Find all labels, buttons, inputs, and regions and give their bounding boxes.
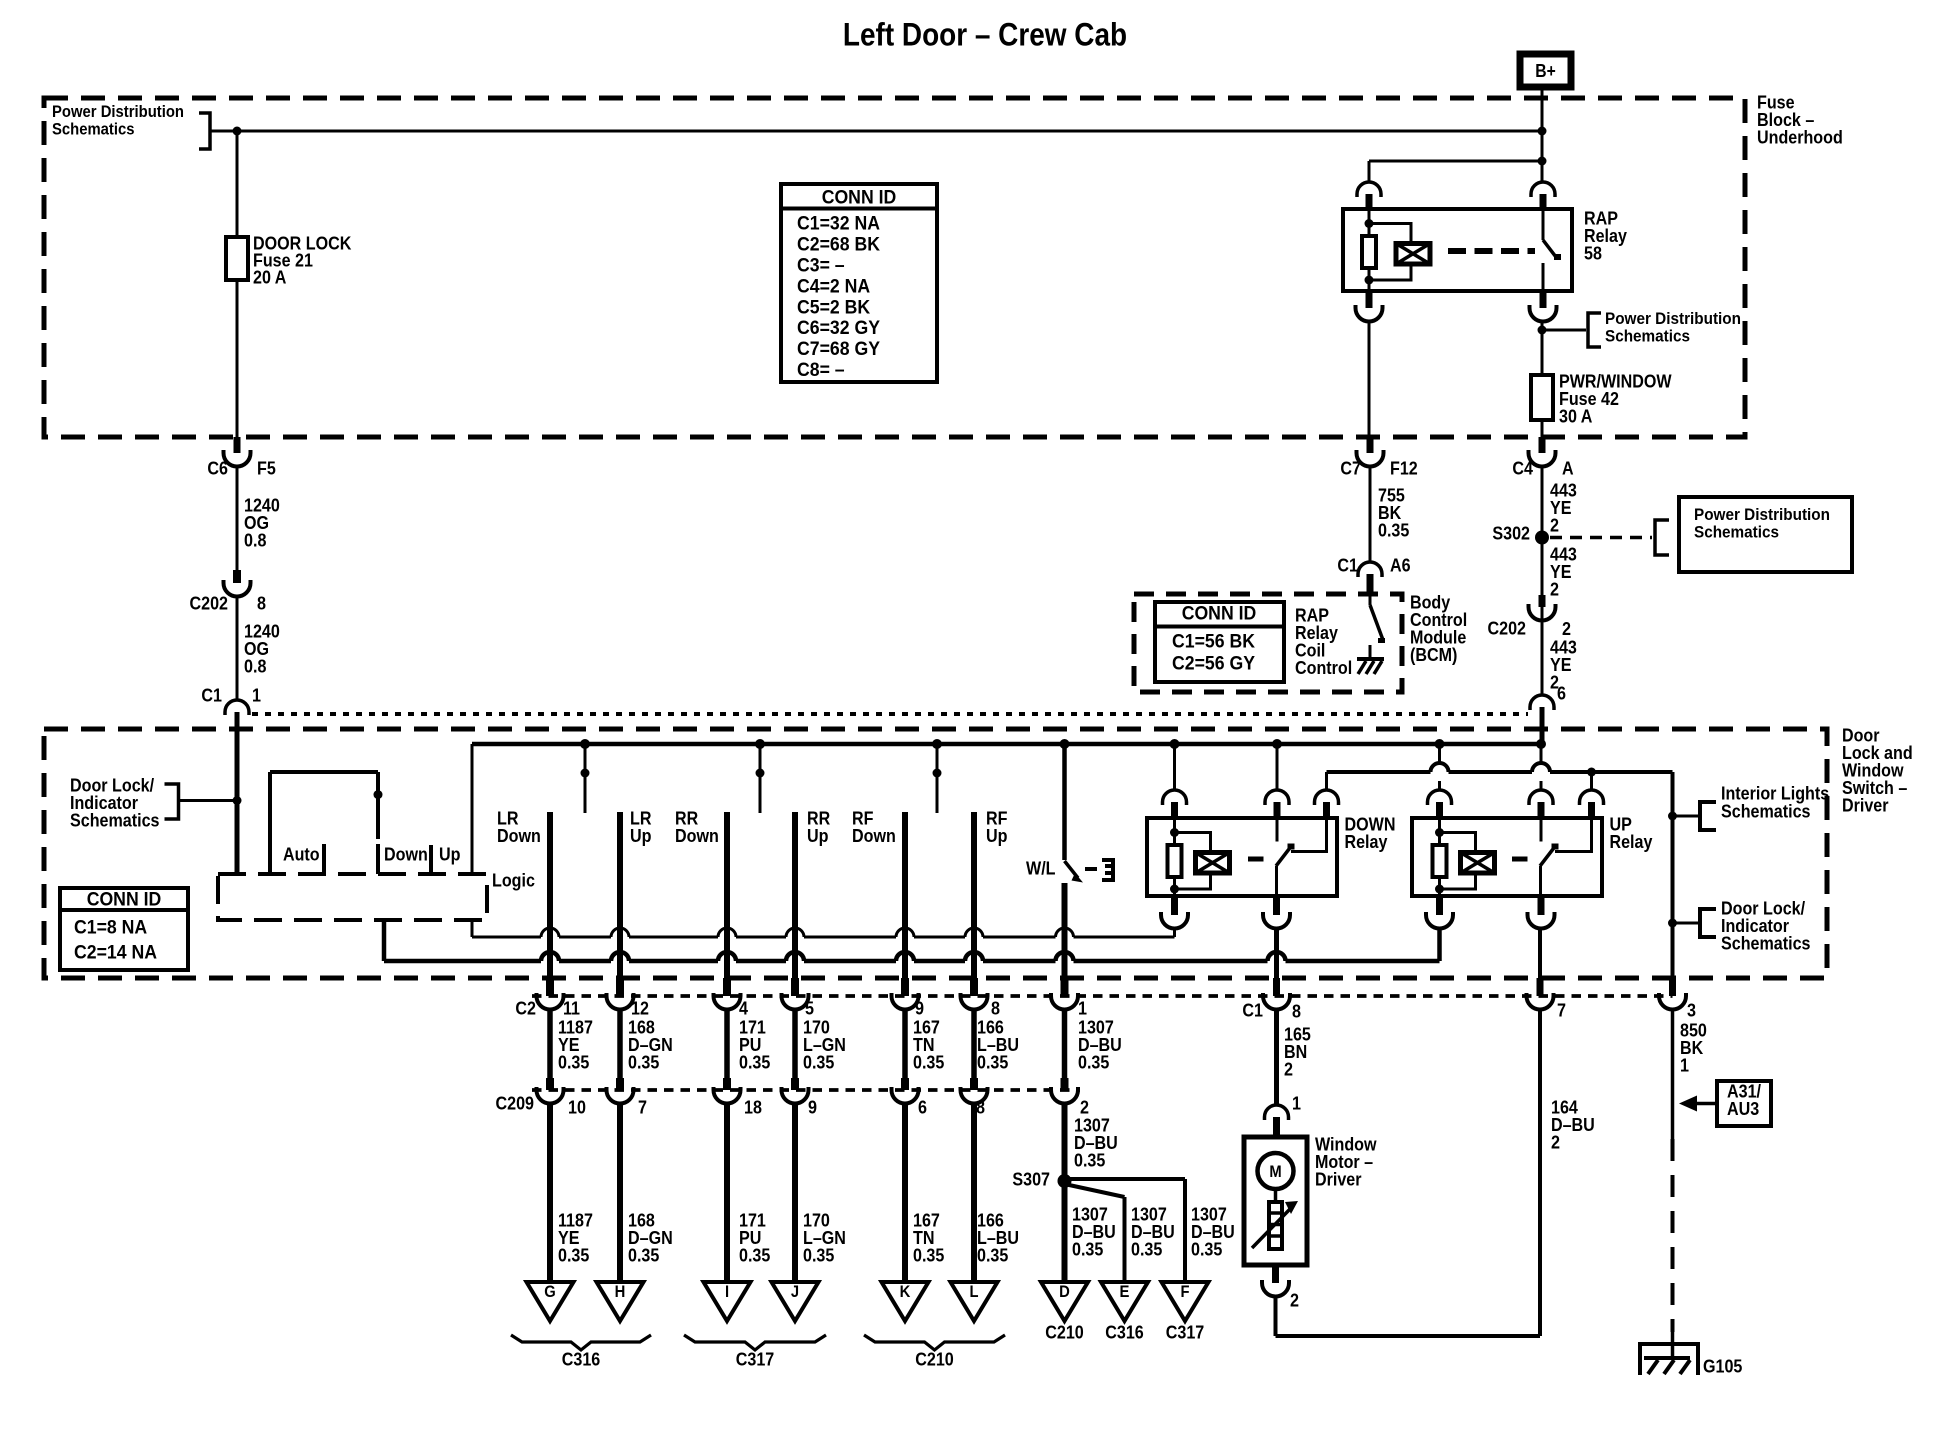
svg-text:0.35: 0.35 — [558, 1244, 589, 1265]
svg-text:0.35: 0.35 — [739, 1051, 770, 1072]
svg-text:Driver: Driver — [1842, 794, 1889, 815]
svg-text:B+: B+ — [1535, 61, 1556, 81]
svg-text:C2=14 NA: C2=14 NA — [74, 943, 157, 964]
svg-text:C7=68 GY: C7=68 GY — [797, 339, 880, 360]
svg-text:8: 8 — [976, 1096, 985, 1117]
svg-text:C2=56 GY: C2=56 GY — [1172, 654, 1255, 675]
svg-text:G105: G105 — [1703, 1355, 1742, 1376]
svg-text:C4: C4 — [1512, 457, 1533, 478]
svg-text:A6: A6 — [1390, 554, 1411, 575]
svg-text:8: 8 — [991, 997, 1000, 1018]
svg-text:C1=8 NA: C1=8 NA — [74, 918, 147, 939]
svg-text:C209: C209 — [496, 1092, 535, 1113]
svg-text:58: 58 — [1584, 242, 1602, 263]
svg-text:1: 1 — [1078, 997, 1087, 1018]
svg-text:Relay: Relay — [1345, 831, 1389, 852]
svg-text:7: 7 — [1557, 999, 1566, 1020]
svg-text:0.35: 0.35 — [803, 1244, 834, 1265]
svg-text:Power Distribution: Power Distribution — [52, 103, 184, 121]
svg-text:Schematics: Schematics — [52, 120, 135, 138]
svg-text:L: L — [970, 1282, 979, 1301]
svg-text:0.35: 0.35 — [977, 1051, 1008, 1072]
svg-text:CONN ID: CONN ID — [822, 188, 897, 209]
svg-text:Down: Down — [852, 825, 896, 846]
svg-text:Driver: Driver — [1315, 1168, 1362, 1189]
svg-text:6: 6 — [1557, 682, 1566, 703]
svg-text:4: 4 — [739, 997, 749, 1018]
svg-text:Schematics: Schematics — [1605, 327, 1690, 346]
svg-text:20 A: 20 A — [253, 266, 286, 287]
svg-text:Power Distribution: Power Distribution — [1694, 505, 1830, 524]
svg-text:0.8: 0.8 — [244, 655, 266, 676]
svg-text:0.35: 0.35 — [1078, 1051, 1109, 1072]
svg-text:Logic: Logic — [492, 869, 535, 890]
svg-text:S302: S302 — [1492, 522, 1530, 543]
svg-text:8: 8 — [1292, 1000, 1301, 1021]
svg-text:Down: Down — [384, 843, 428, 864]
svg-text:0.35: 0.35 — [913, 1051, 944, 1072]
svg-text:5: 5 — [805, 997, 814, 1018]
svg-text:C1=32 NA: C1=32 NA — [797, 214, 880, 235]
svg-text:F5: F5 — [257, 457, 276, 478]
svg-text:10: 10 — [568, 1096, 586, 1117]
svg-text:0.35: 0.35 — [1072, 1238, 1103, 1259]
svg-text:C317: C317 — [1166, 1321, 1205, 1342]
svg-text:C210: C210 — [915, 1348, 954, 1369]
svg-text:Schematics: Schematics — [1721, 800, 1811, 821]
svg-text:K: K — [900, 1282, 911, 1301]
svg-text:0.35: 0.35 — [1074, 1149, 1105, 1170]
svg-text:0.35: 0.35 — [913, 1244, 944, 1265]
svg-text:C6: C6 — [207, 457, 228, 478]
svg-text:3: 3 — [1687, 999, 1696, 1020]
svg-text:Down: Down — [675, 825, 719, 846]
svg-text:30 A: 30 A — [1559, 405, 1592, 426]
svg-text:Underhood: Underhood — [1757, 126, 1843, 147]
svg-text:C6=32 GY: C6=32 GY — [797, 318, 880, 339]
svg-text:W/L: W/L — [1026, 857, 1056, 878]
svg-text:A: A — [1562, 457, 1574, 478]
svg-text:C316: C316 — [562, 1348, 601, 1369]
svg-text:0.35: 0.35 — [977, 1244, 1008, 1265]
svg-text:2: 2 — [1551, 1131, 1560, 1152]
svg-text:0.35: 0.35 — [1131, 1238, 1162, 1259]
svg-text:Schematics: Schematics — [1694, 523, 1779, 542]
svg-text:C8= –: C8= – — [797, 360, 845, 381]
svg-text:C210: C210 — [1045, 1321, 1084, 1342]
svg-text:C1=56 BK: C1=56 BK — [1172, 632, 1255, 653]
svg-text:S307: S307 — [1012, 1168, 1050, 1189]
svg-text:Relay: Relay — [1610, 831, 1654, 852]
svg-text:Schematics: Schematics — [1721, 932, 1811, 953]
svg-text:C1: C1 — [1242, 999, 1263, 1020]
svg-text:C3= –: C3= – — [797, 256, 845, 277]
svg-text:(BCM): (BCM) — [1410, 644, 1457, 665]
svg-text:Control: Control — [1295, 657, 1352, 678]
svg-text:7: 7 — [638, 1096, 647, 1117]
svg-text:0.35: 0.35 — [558, 1051, 589, 1072]
svg-text:F12: F12 — [1390, 457, 1418, 478]
svg-text:1: 1 — [1292, 1092, 1301, 1113]
svg-text:C2: C2 — [515, 997, 536, 1018]
svg-text:C1: C1 — [1337, 554, 1358, 575]
svg-text:8: 8 — [257, 592, 266, 613]
svg-text:C7: C7 — [1340, 457, 1361, 478]
svg-text:Power Distribution: Power Distribution — [1605, 309, 1741, 328]
svg-text:Up: Up — [986, 825, 1008, 846]
svg-text:1: 1 — [1680, 1054, 1689, 1075]
svg-text:C316: C316 — [1105, 1321, 1144, 1342]
svg-text:11: 11 — [563, 997, 580, 1018]
svg-text:M: M — [1269, 1162, 1281, 1181]
svg-text:2: 2 — [1290, 1289, 1299, 1310]
svg-text:C1: C1 — [201, 684, 222, 705]
svg-text:F: F — [1181, 1282, 1190, 1301]
svg-text:C2=68 BK: C2=68 BK — [797, 235, 880, 256]
svg-text:CONN ID: CONN ID — [87, 890, 162, 911]
svg-text:H: H — [615, 1282, 626, 1301]
svg-text:I: I — [725, 1282, 729, 1301]
svg-text:CONN ID: CONN ID — [1182, 604, 1257, 625]
svg-text:C317: C317 — [736, 1348, 775, 1369]
svg-text:Up: Up — [630, 825, 652, 846]
svg-text:9: 9 — [808, 1096, 817, 1117]
svg-text:G: G — [544, 1282, 556, 1301]
svg-text:0.35: 0.35 — [803, 1051, 834, 1072]
svg-text:C202: C202 — [190, 592, 229, 613]
svg-text:2: 2 — [1550, 578, 1559, 599]
svg-text:Left Door – Crew Cab: Left Door – Crew Cab — [843, 16, 1127, 52]
svg-text:0.35: 0.35 — [628, 1051, 659, 1072]
svg-text:12: 12 — [631, 997, 649, 1018]
svg-text:0.8: 0.8 — [244, 529, 266, 550]
svg-text:9: 9 — [915, 997, 924, 1018]
svg-text:C202: C202 — [1488, 617, 1527, 638]
svg-text:2: 2 — [1550, 514, 1559, 535]
svg-text:18: 18 — [744, 1096, 762, 1117]
svg-text:Down: Down — [497, 825, 541, 846]
svg-text:2: 2 — [1284, 1058, 1293, 1079]
svg-text:Up: Up — [807, 825, 829, 846]
svg-text:0.35: 0.35 — [628, 1244, 659, 1265]
svg-text:0.35: 0.35 — [739, 1244, 770, 1265]
svg-text:AU3: AU3 — [1727, 1098, 1759, 1119]
svg-text:Schematics: Schematics — [70, 809, 160, 830]
svg-text:C5=2 BK: C5=2 BK — [797, 297, 870, 318]
svg-text:C4=2 NA: C4=2 NA — [797, 276, 870, 297]
svg-text:E: E — [1120, 1282, 1130, 1301]
svg-text:6: 6 — [918, 1096, 927, 1117]
svg-text:0.35: 0.35 — [1378, 519, 1409, 540]
svg-text:1: 1 — [252, 684, 261, 705]
svg-text:Up: Up — [439, 843, 461, 864]
svg-text:Auto: Auto — [283, 843, 320, 864]
svg-text:0.35: 0.35 — [1191, 1238, 1222, 1259]
svg-text:J: J — [791, 1282, 799, 1301]
svg-text:D: D — [1059, 1282, 1070, 1301]
